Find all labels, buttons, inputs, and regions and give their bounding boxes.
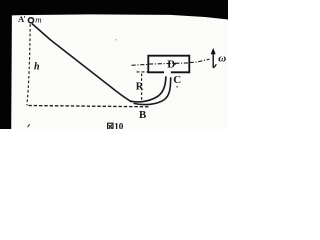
- svg-text:C: C: [173, 74, 181, 86]
- svg-text:D: D: [167, 59, 175, 71]
- speck near C: [176, 86, 178, 87]
- svg-text:h: h: [34, 62, 40, 73]
- svg-text:B: B: [139, 109, 146, 121]
- svg-text:ω: ω: [218, 53, 226, 65]
- omega arrow head: [211, 48, 216, 54]
- ground line (dashed horizontal): [28, 106, 150, 107]
- wheel D rectangle (bottom edge has gap above arc mouth): [148, 56, 189, 73]
- arc track BC inner line: [130, 76, 166, 102]
- omega arrow stem: [212, 53, 214, 68]
- speck mid slope: [115, 39, 116, 40]
- incline AB: [32, 24, 132, 102]
- svg-text:A: A: [18, 14, 25, 24]
- axis line dash-dot right of wheel: [190, 59, 210, 62]
- ball m at A: [28, 18, 33, 23]
- speck after A: [23, 16, 26, 18]
- arc track BC outer line: [134, 77, 171, 104]
- height line (dashed vertical): [27, 24, 30, 105]
- radius line (dashed vertical through B): [141, 74, 143, 100]
- paper background: [0, 0, 228, 129]
- svg-text:R: R: [136, 81, 144, 92]
- omega arrow bottom hook: [213, 64, 216, 68]
- speck bottom left: [28, 124, 30, 127]
- axis line dash-dot through wheel: [149, 63, 189, 64]
- centre dot after D: [175, 63, 177, 65]
- radius top link (short dashed horizontal): [137, 71, 149, 73]
- black top bar: [0, 0, 228, 20]
- black left bar: [0, 0, 12, 129]
- svg-text:10: 10: [114, 122, 124, 129]
- caption glyph tu (figure) drawn: [108, 123, 113, 129]
- svg-text:m: m: [35, 14, 41, 24]
- axis line dash-dot left of wheel: [132, 63, 149, 66]
